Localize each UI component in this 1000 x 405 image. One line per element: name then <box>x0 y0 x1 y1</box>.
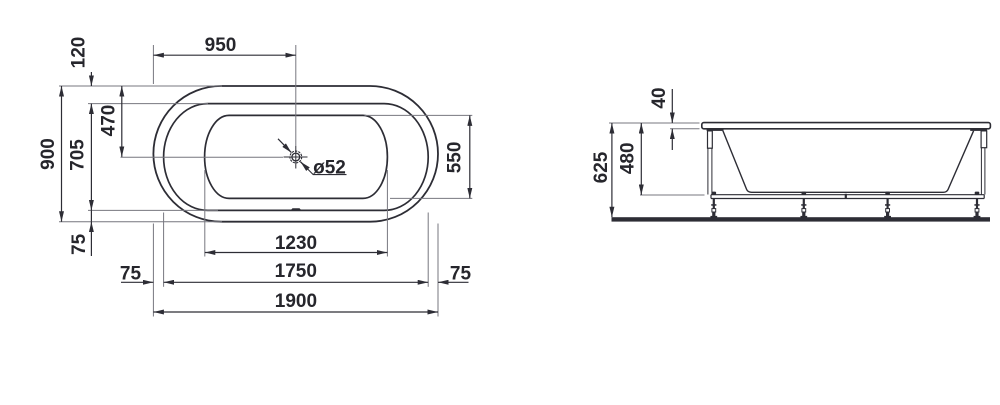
dimension 120 line with outside arrows <box>90 72 92 86</box>
svg-text:550: 550 <box>445 142 466 174</box>
frame center mark <box>845 194 847 199</box>
extension line rim left down (x=164.6) <box>163 213 165 287</box>
extension line rim bottom (y=210.4) <box>88 209 218 211</box>
extension line tub left down (x=153.4) <box>152 224 154 317</box>
foot 1 <box>710 192 717 218</box>
svg-text:625: 625 <box>591 151 612 183</box>
frame right end cap <box>983 195 985 199</box>
svg-text:470: 470 <box>99 105 120 137</box>
extension line rim right down (x=426.6) <box>427 213 429 287</box>
svg-text:1230: 1230 <box>275 233 317 254</box>
dimension 705 line (shares vertical with 120 bottom arrow) <box>90 104 92 211</box>
svg-text:40: 40 <box>649 87 670 108</box>
svg-text:480: 480 <box>617 142 638 174</box>
outer tub contour (stadium 1900x900) <box>153 86 438 222</box>
extension line drain axis (y=157.5) <box>121 156 284 158</box>
dimension 40 lower arrow <box>671 129 673 150</box>
extension line for 950 left (tub left edge up) <box>152 45 154 84</box>
extension line basin top right (y=115.4) <box>365 114 473 116</box>
dimension 75 left leader <box>121 281 153 283</box>
left wall bracket <box>708 131 713 148</box>
extension line basin right down (x=386.9) <box>386 170 388 257</box>
dimension 950 line <box>153 54 295 56</box>
left rim connector strip <box>707 128 724 131</box>
extension line rim bottom level (y=128.7) <box>670 128 700 130</box>
frame left end cap <box>710 195 712 199</box>
svg-text:1900: 1900 <box>275 291 317 312</box>
floor line <box>612 217 991 221</box>
pointer arrow to drain (upper-left) <box>278 139 291 153</box>
right wall bracket <box>981 131 987 148</box>
right apron edge outer line <box>984 148 986 195</box>
dimension 550 line <box>469 115 471 198</box>
overflow bump on rim bottom line <box>291 208 302 210</box>
extension line basin left down (x=204.8) <box>204 170 206 257</box>
dimension 480 line <box>640 123 642 195</box>
dimension 1230 line <box>205 252 388 254</box>
support frame top rail <box>711 194 984 196</box>
foot 3 <box>884 192 891 218</box>
dimension 75 bottom-left vertical arrow <box>90 222 92 256</box>
svg-text:75: 75 <box>120 264 142 285</box>
foot 2 <box>800 192 807 218</box>
leader line of drain label <box>301 162 347 175</box>
tub interior profile <box>723 131 974 193</box>
extension line rim top level (y=123) <box>609 122 700 124</box>
dimension 40 upper arrow <box>671 89 673 123</box>
svg-text:75: 75 <box>450 264 472 285</box>
svg-text:705: 705 <box>67 139 88 171</box>
foot 4 <box>974 192 981 218</box>
drain cross horizontal tick <box>284 156 308 158</box>
rim bar <box>702 123 991 129</box>
left apron edge outer line <box>707 148 709 194</box>
svg-text:120: 120 <box>69 37 90 69</box>
wire segment between rim bottom and tub bottom at x=91.4 <box>90 210 92 221</box>
dimension 1750 line <box>164 281 429 283</box>
inner rim contour (1750 wide) <box>164 104 429 211</box>
drain outer circle <box>290 151 302 163</box>
extension line tub right down (x=436.9) <box>437 224 439 317</box>
right rim connector strip <box>970 128 987 131</box>
dimension 75 right leader <box>438 281 469 283</box>
extension line top of tub (y=86) <box>59 85 222 87</box>
dimension 625 line <box>611 123 613 217</box>
svg-text:75: 75 <box>69 233 90 255</box>
svg-text:900: 900 <box>38 138 59 170</box>
extension line rim top (y=103.6) <box>88 103 208 105</box>
extension line tub interior bottom (y=195) <box>640 194 705 196</box>
left apron edge inner line <box>711 148 713 194</box>
drain cross vertical tick <box>295 146 297 169</box>
svg-text:1750: 1750 <box>275 261 317 282</box>
right apron edge inner line <box>980 148 982 195</box>
svg-text:ø52: ø52 <box>313 157 346 178</box>
dimension 470 line <box>121 86 123 157</box>
extension line tub bottom (y=221.7) <box>59 221 222 223</box>
basin contour (1230x550) <box>205 115 388 198</box>
dimension 1900 line <box>153 311 438 313</box>
drain inner circle <box>292 153 300 161</box>
extension line for 950 right (drain axis up) <box>295 45 297 146</box>
svg-text:950: 950 <box>205 35 237 56</box>
support frame bottom rail <box>711 198 984 200</box>
extension line basin bottom right (y=198.4) <box>390 197 472 199</box>
dimension 900 line <box>61 86 63 222</box>
